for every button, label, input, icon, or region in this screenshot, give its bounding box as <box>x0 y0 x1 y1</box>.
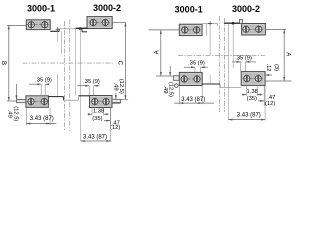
svg-text:A: A <box>284 52 290 56</box>
svg-text:.49: .49 <box>112 83 118 91</box>
svg-text:.35 (9): .35 (9) <box>188 61 205 67</box>
svg-text:(35): (35) <box>92 116 102 122</box>
svg-text:(3): (3) <box>273 64 279 71</box>
svg-text:1.38: 1.38 <box>247 89 258 95</box>
svg-text:.12: .12 <box>265 63 271 71</box>
svg-text:.35 (9): .35 (9) <box>35 78 52 84</box>
svg-text:3.43 (87): 3.43 (87) <box>30 116 54 122</box>
svg-text:.35 (9): .35 (9) <box>235 56 252 62</box>
svg-text:.49: .49 <box>162 85 168 93</box>
svg-text:C: C <box>116 61 122 66</box>
svg-text:3.43 (87): 3.43 (87) <box>181 97 205 103</box>
svg-text:3.43 (87): 3.43 (87) <box>237 112 261 118</box>
svg-text:3000-2: 3000-2 <box>232 4 260 14</box>
svg-text:A: A <box>154 50 160 54</box>
svg-text:(35): (35) <box>247 96 257 102</box>
svg-text:3000-1: 3000-1 <box>175 5 203 15</box>
svg-text:3.43 (87): 3.43 (87) <box>83 135 107 141</box>
svg-text:(12): (12) <box>265 101 275 107</box>
svg-text:(12.5): (12.5) <box>118 79 124 94</box>
svg-text:.49: .49 <box>7 110 13 118</box>
svg-text:3000-2: 3000-2 <box>93 3 121 13</box>
svg-text:B: B <box>0 61 6 65</box>
svg-text:3000-1: 3000-1 <box>27 4 55 14</box>
svg-text:.35 (9): .35 (9) <box>83 79 100 85</box>
svg-text:(12.5): (12.5) <box>13 106 19 121</box>
svg-text:(12.5): (12.5) <box>168 82 174 97</box>
svg-text:1.38: 1.38 <box>93 109 104 115</box>
svg-text:(12): (12) <box>110 125 120 131</box>
